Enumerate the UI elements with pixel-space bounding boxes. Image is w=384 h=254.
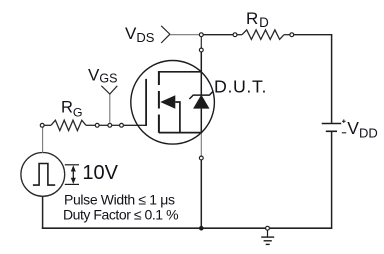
- node: gate terminal (open circle): [120, 123, 124, 127]
- node: drain top terminal (open circle): [199, 33, 203, 37]
- svg-text:D.U.T.: D.U.T.: [214, 77, 267, 97]
- MOSFET gate bar: [145, 79, 147, 126]
- VDS probe fork: [161, 26, 170, 43]
- node: ground terminal (open circle): [266, 226, 270, 230]
- 10V double-headed arrow: [72, 169, 74, 180]
- resistor RD zigzag: [242, 30, 284, 40]
- MOSFET channel dash 1: [158, 71, 160, 85]
- svg-text:10V: 10V: [82, 162, 118, 184]
- wire: bottom rail: [42, 227, 332, 229]
- node: RD right terminal: [290, 33, 294, 37]
- wire: source exit to terminal (thin): [200, 134, 202, 157]
- ground bar 2: [264, 240, 272, 242]
- wire: top rail to RD: [203, 34, 233, 36]
- ground bar 1: [261, 236, 274, 238]
- ground stem: [267, 230, 269, 237]
- svg-text:Duty Factor ≤ 0.1 %: Duty Factor ≤ 0.1 %: [63, 207, 178, 223]
- wire: node to MOSFET gate: [124, 124, 147, 126]
- MOSFET body connection to source: [175, 102, 180, 133]
- battery VDD short plate (-): [326, 130, 337, 132]
- node: RD left terminal: [233, 33, 237, 37]
- node: gate input terminal (open circle): [40, 123, 44, 127]
- MOSFET channel dash 3: [158, 115, 160, 133]
- wire: source terminal to bottom rail: [200, 160, 202, 228]
- battery VDD long plate (+): [322, 123, 342, 125]
- MOSFET body arrow: [160, 95, 175, 109]
- wire: to RD zigzag: [237, 34, 242, 36]
- VDS probe stem: [170, 34, 199, 36]
- battery minus sign: [342, 132, 346, 134]
- wire: between nodes: [99, 124, 108, 126]
- 10V amplitude arrow top tick: [65, 164, 79, 166]
- MOSFET drain lead: [159, 71, 201, 73]
- wire: right rail down to battery: [331, 34, 333, 123]
- resistor RG zigzag: [51, 120, 86, 130]
- node: source terminal (open circle): [199, 156, 203, 160]
- pulse generator source circle: [21, 153, 65, 197]
- wire: battery to bottom rail: [331, 132, 333, 229]
- MOSFET source lead: [159, 132, 201, 134]
- wire: RD zigzag to terminal: [284, 34, 290, 36]
- svg-text:Pulse Width ≤ 1 μs: Pulse Width ≤ 1 μs: [64, 192, 175, 208]
- VGS probe fork: [101, 86, 117, 94]
- MOSFET channel dash 2: [158, 91, 160, 109]
- wire: drain terminal down (between circles): [200, 37, 202, 48]
- wire: diode to source lead and down: [200, 109, 202, 134]
- MOSFET DUT outline circle: [131, 61, 215, 145]
- junction dot at bottom rail: [199, 226, 204, 231]
- node: drain terminal (open circle): [199, 48, 203, 52]
- pulse waveform inside source: [33, 164, 55, 186]
- wire: pulse generator bottom to bottom rail: [42, 196, 44, 228]
- node: VGS probe terminal (open circle): [108, 123, 112, 127]
- wire: terminal to RG: [44, 124, 51, 126]
- body diode (zener) triangle: [193, 95, 209, 109]
- body diode cathode bar with bent ends: [189, 91, 213, 99]
- VGS probe stem: [109, 94, 111, 123]
- wire: pulse generator top to gate node: [42, 127, 44, 153]
- wire: drain down into MOSFET: [200, 52, 202, 95]
- 10V amplitude arrow bottom tick: [65, 183, 79, 185]
- wire: RG to node: [86, 124, 95, 126]
- node: open circle after RG: [95, 123, 99, 127]
- ground bar 3: [266, 243, 270, 245]
- wire: between nodes: [112, 124, 120, 126]
- battery plus sign: [342, 119, 346, 123]
- wire: RD to right rail corner: [294, 34, 332, 36]
